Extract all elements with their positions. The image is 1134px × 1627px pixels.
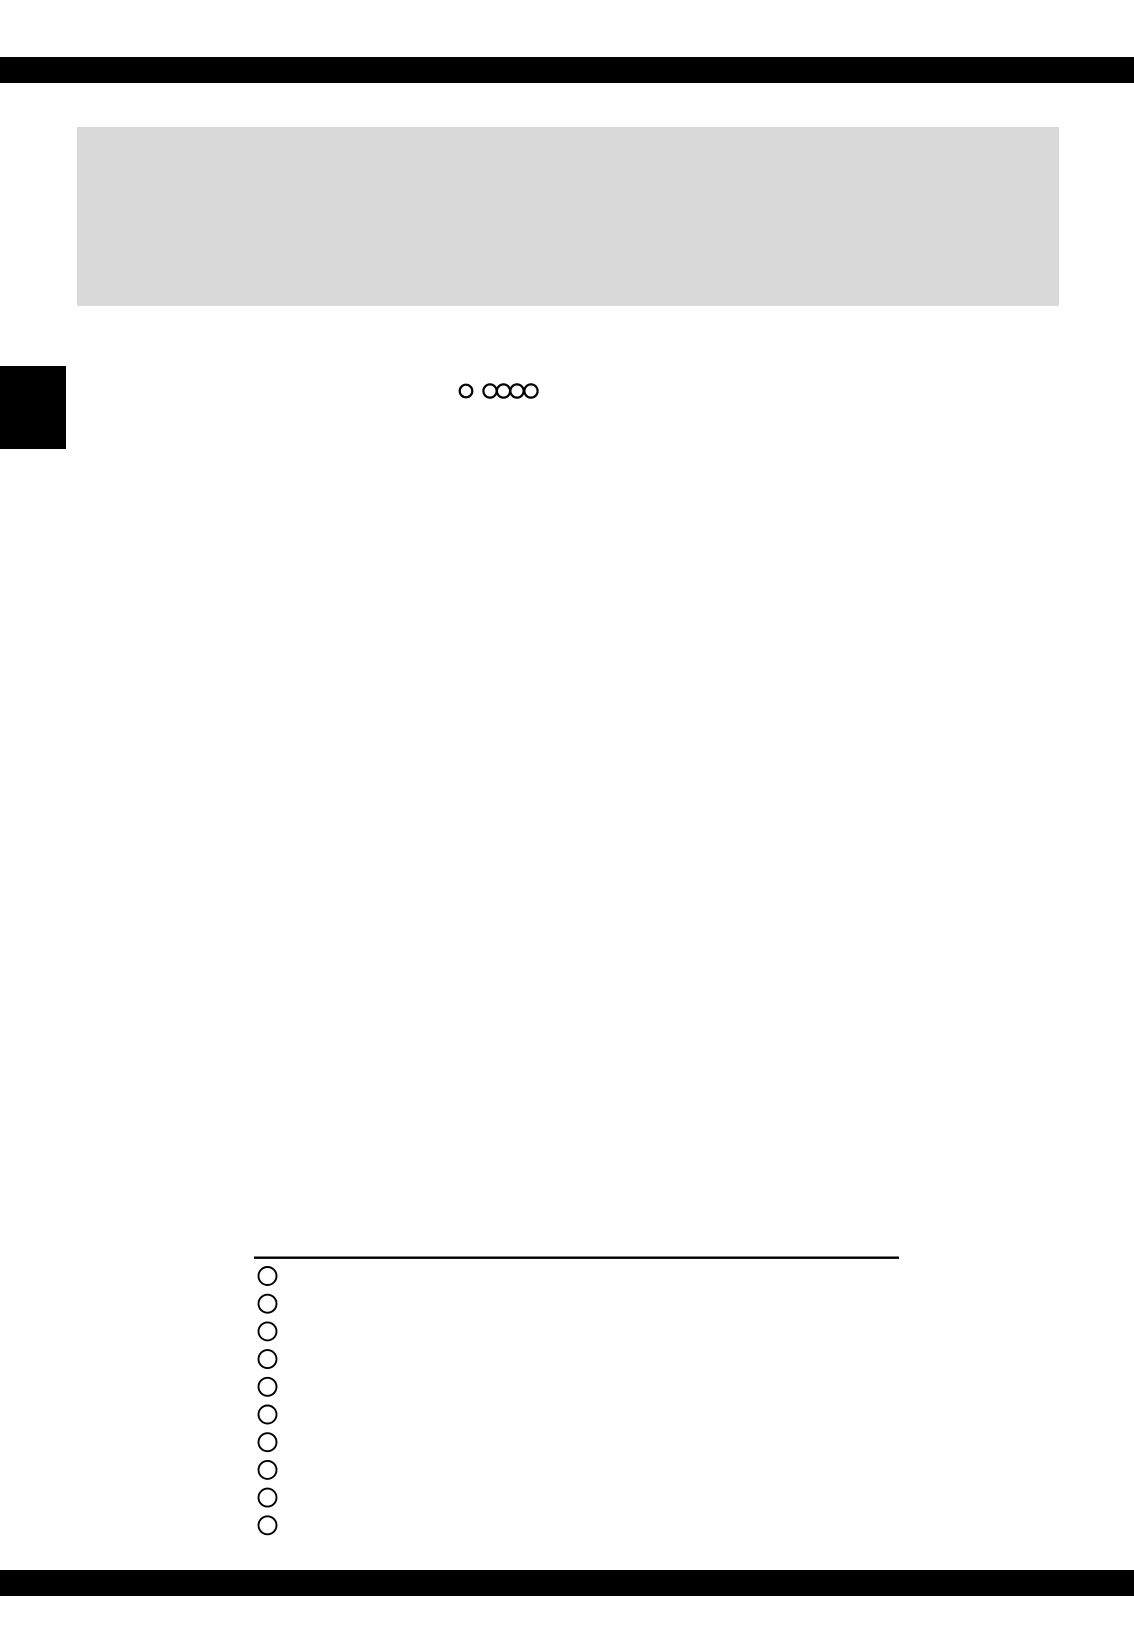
bottom footer bar — [0, 1570, 1134, 1596]
black chapter tab — [0, 366, 66, 449]
grey note box — [77, 127, 1059, 306]
legend item circles — [259, 1267, 277, 1534]
legend bubbles row — [460, 384, 538, 397]
legend rule — [254, 1257, 899, 1259]
top header bar — [0, 57, 1134, 83]
